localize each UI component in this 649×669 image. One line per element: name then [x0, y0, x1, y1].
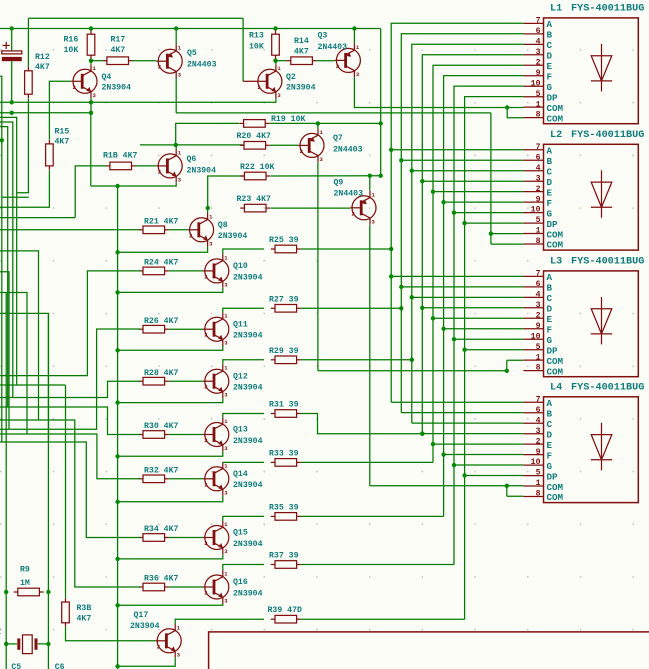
wire L3 pin DP feed — [465, 349, 524, 351]
wire R38 top feed — [65, 385, 67, 598]
wire L3 pin D feed — [422, 307, 523, 309]
wire Q17 collector — [175, 619, 264, 624]
svg-text:Q13: Q13 — [233, 426, 248, 435]
wire L2 pin E feed — [433, 191, 523, 193]
label R25 39 — [269, 236, 299, 245]
label Q17 2N3904 — [130, 611, 160, 631]
svg-text:7: 7 — [536, 17, 541, 26]
resistor R34 — [139, 534, 169, 542]
svg-text:FYS-40011BUG: FYS-40011BUG — [571, 130, 644, 141]
svg-text:6: 6 — [536, 153, 541, 162]
capacitor C12 polarized — [2, 29, 22, 103]
svg-text:5: 5 — [536, 469, 541, 478]
transistor Q13 — [203, 418, 229, 452]
wire R18 input — [75, 166, 106, 218]
svg-text:4K7: 4K7 — [111, 46, 126, 55]
svg-text:A: A — [547, 272, 553, 283]
svg-text:Q3: Q3 — [318, 32, 328, 41]
junction R13 top — [273, 26, 277, 30]
svg-text:5: 5 — [536, 343, 541, 352]
wire Q14 collector — [223, 461, 264, 463]
wire segment bus DP vertical — [465, 97, 524, 620]
svg-text:A: A — [547, 146, 553, 157]
wire L2 pin DP feed — [465, 222, 524, 224]
svg-text:2N4403: 2N4403 — [334, 189, 364, 198]
wire R12 top feed — [27, 18, 29, 67]
wire L4 COM feed — [370, 485, 507, 487]
connector L1 FYS-40011BUG box — [544, 18, 639, 124]
junction rail113 cap — [10, 111, 14, 115]
svg-text:4: 4 — [536, 416, 541, 425]
svg-text:L3: L3 — [550, 257, 562, 268]
svg-text:2: 2 — [536, 58, 541, 67]
wire Q12 emitter — [118, 398, 223, 403]
label C6 — [55, 663, 65, 669]
wire L1 COM1 stub — [507, 107, 523, 109]
junction Q14 emitter — [115, 500, 119, 504]
svg-text:R26 4K7: R26 4K7 — [144, 317, 178, 326]
svg-text:4K7: 4K7 — [35, 63, 50, 72]
svg-text:COM: COM — [547, 492, 564, 503]
svg-text:2: 2 — [158, 168, 161, 175]
wire L2 pin D feed — [422, 180, 523, 182]
wire L3 pin F feed — [444, 328, 524, 330]
label L1 title — [550, 4, 644, 15]
label Q11 2N3904 — [233, 320, 263, 340]
wire Q6 collector up — [175, 145, 177, 149]
junction Q4 emitter node — [89, 100, 93, 104]
svg-text:2: 2 — [189, 232, 192, 239]
resistor R18 — [106, 162, 136, 170]
wire R15 bottom path — [0, 170, 49, 207]
transistor Q2 — [256, 65, 282, 99]
svg-text:2: 2 — [204, 437, 207, 444]
resistor R13 — [272, 30, 280, 59]
resistor R37 — [271, 561, 301, 569]
wire Q4 emitter down — [90, 98, 92, 113]
wire feed row R36 — [0, 420, 140, 587]
svg-text:2: 2 — [536, 185, 541, 194]
transistor Q8 — [188, 213, 214, 247]
label R28 4K7 — [144, 369, 178, 378]
wire L2 COM1 — [491, 233, 524, 235]
label Q16 2N3904 — [233, 578, 263, 598]
svg-text:E: E — [547, 61, 553, 72]
svg-text:Q16: Q16 — [233, 578, 248, 587]
wire Q9 emitter up — [369, 176, 371, 191]
svg-text:8: 8 — [536, 111, 541, 120]
wire left edge spur — [0, 76, 29, 442]
junction L2 D — [420, 179, 424, 183]
svg-text:L1: L1 — [550, 4, 562, 15]
diode symbol L2 — [591, 170, 612, 218]
svg-text:10: 10 — [531, 332, 541, 341]
junction Q17 emitter — [115, 664, 119, 668]
junction R13 bottom node — [273, 59, 277, 63]
svg-text:R39 47D: R39 47D — [268, 606, 302, 615]
wire feed entry y122 — [0, 122, 13, 398]
resistor R39 — [271, 615, 301, 623]
svg-text:1: 1 — [536, 100, 541, 109]
wire R12 bottom path — [17, 99, 29, 193]
junction L2 F — [441, 200, 445, 204]
wire rail drop x380.7 — [380, 29, 382, 176]
wire R16-R17 node — [91, 60, 103, 62]
svg-text:A: A — [547, 398, 553, 409]
svg-text:R1B 4K7: R1B 4K7 — [103, 152, 137, 161]
svg-text:2N3904: 2N3904 — [286, 84, 316, 93]
junction rail-cap — [10, 26, 14, 30]
resistor R38 — [62, 598, 70, 627]
svg-text:B: B — [547, 156, 553, 167]
wire Q15 emitter — [118, 554, 223, 559]
label R9 1M — [20, 566, 30, 588]
svg-text:Q10: Q10 — [233, 262, 248, 271]
svg-text:DP: DP — [547, 219, 559, 230]
label L3 title — [550, 257, 644, 268]
wire R22 left bend — [208, 176, 244, 208]
svg-text:R33 39: R33 39 — [269, 449, 299, 458]
svg-text:C: C — [547, 293, 553, 304]
wire Q3 collector route — [354, 77, 507, 107]
svg-text:4K7: 4K7 — [77, 615, 92, 624]
junction R9 right — [46, 590, 50, 594]
junction L4 F — [441, 452, 445, 456]
svg-text:4K7: 4K7 — [294, 48, 309, 57]
wire feed entry y251 — [0, 251, 39, 420]
wire segment bus B vertical — [401, 34, 523, 413]
svg-text:R3B: R3B — [77, 604, 92, 613]
label R21 4K7 — [144, 218, 178, 227]
junction L3 D — [420, 306, 424, 310]
resistor R31 — [271, 410, 301, 418]
junction Q11 emitter — [115, 348, 119, 352]
svg-text:DP: DP — [547, 92, 559, 103]
svg-text:COM: COM — [547, 482, 564, 493]
diode symbol L3 — [591, 297, 612, 345]
wire Q15 collector — [223, 516, 264, 520]
svg-text:A: A — [547, 19, 553, 30]
svg-text:Q17: Q17 — [134, 611, 149, 620]
resistor R26 — [139, 325, 169, 333]
pins L4 — [523, 395, 563, 503]
junction L4 COM — [505, 484, 509, 488]
wire R19 left bend — [176, 123, 239, 144]
junction L2 COM — [489, 231, 493, 235]
wire L3 pin E feed — [433, 317, 523, 319]
wire Q4 base feed — [50, 80, 72, 82]
svg-text:G: G — [547, 208, 553, 219]
wire Q13 collector — [223, 414, 264, 418]
wire Q16 emitter — [118, 604, 223, 606]
svg-text:COM: COM — [547, 240, 564, 251]
svg-text:6: 6 — [536, 27, 541, 36]
svg-text:2N3904: 2N3904 — [102, 84, 132, 93]
wire L3 pin G feed — [454, 338, 523, 340]
label R31 39 — [269, 401, 299, 410]
resistor R36 — [139, 583, 169, 591]
junction R25 bus — [389, 247, 393, 251]
wire L2 pin G feed — [454, 212, 523, 214]
svg-text:B: B — [547, 283, 553, 294]
svg-text:7: 7 — [536, 143, 541, 152]
wire L4 COM2 stub — [507, 495, 524, 497]
svg-text:R22 10K: R22 10K — [240, 163, 274, 172]
svg-text:R34 4K7: R34 4K7 — [144, 525, 178, 534]
svg-text:7: 7 — [536, 395, 541, 404]
wire rail y28.5 — [0, 28, 381, 30]
svg-text:COM: COM — [547, 113, 564, 124]
diode symbol L1 — [591, 44, 612, 92]
junction R23 node — [206, 206, 210, 210]
label L4 title — [550, 383, 644, 394]
svg-text:D: D — [547, 429, 553, 440]
resistor R27 — [271, 305, 301, 313]
label R27 39 — [269, 295, 299, 304]
resistor R9 — [14, 588, 44, 596]
wire emitter row y102 — [0, 101, 175, 103]
label C5 — [11, 663, 21, 669]
wire Q11 emitter — [118, 346, 223, 350]
wire feed entry y126 — [0, 127, 8, 407]
label R18 4K7 — [103, 152, 137, 161]
wire feed entry y117 — [0, 117, 17, 385]
label R14 4K7 — [294, 37, 309, 57]
svg-text:G: G — [547, 82, 553, 93]
svg-text:2N3904: 2N3904 — [233, 384, 263, 393]
label Q12 2N3904 — [233, 372, 263, 392]
junction Q15 emitter — [115, 557, 119, 561]
svg-text:2N3904: 2N3904 — [233, 481, 263, 490]
svg-text:Z: Z — [0, 628, 1, 637]
wire Q6 collector row — [140, 144, 243, 146]
svg-text:2: 2 — [157, 643, 160, 650]
svg-text:Q12: Q12 — [233, 372, 248, 381]
svg-text:1: 1 — [536, 353, 541, 362]
connector L2 FYS-40011BUG box — [544, 144, 639, 250]
svg-text:3: 3 — [536, 174, 541, 183]
junction L3 G — [452, 337, 456, 341]
junction Q5 emitter rail — [174, 26, 178, 30]
svg-text:2: 2 — [204, 481, 207, 488]
svg-text:C: C — [547, 40, 553, 51]
svg-text:3: 3 — [536, 427, 541, 436]
svg-text:R24 4K7: R24 4K7 — [144, 259, 178, 268]
svg-text:E: E — [547, 187, 553, 198]
label Q3 2N4403 — [318, 32, 348, 53]
transistor Q15 — [203, 521, 229, 555]
transistor Q16 — [203, 570, 229, 604]
resistor R22 — [240, 172, 270, 180]
wire L2 pin B feed — [401, 159, 523, 161]
label Q6 2N3904 — [187, 155, 217, 176]
resistor R28 — [139, 377, 169, 385]
junction L4 DP — [462, 473, 466, 477]
svg-text:R31 39: R31 39 — [269, 401, 299, 410]
resistor R19 — [239, 120, 269, 128]
wire L3 pin B feed — [401, 286, 523, 288]
wire R21 to Q8 base — [169, 229, 188, 231]
svg-text:D: D — [547, 51, 553, 62]
resistor R32 — [139, 475, 169, 483]
label R15 4K7 — [55, 128, 70, 147]
junction R19 x380 — [379, 121, 383, 125]
label R36 4K7 — [144, 575, 178, 584]
wire R19 right — [270, 122, 381, 124]
resistor R25 — [271, 245, 301, 253]
svg-text:R28 4K7: R28 4K7 — [144, 369, 178, 378]
label Q2 2N3904 — [286, 73, 316, 93]
label edge fragment — [0, 628, 1, 637]
svg-text:C: C — [547, 166, 553, 177]
svg-text:G: G — [547, 461, 553, 472]
svg-text:Q15: Q15 — [233, 529, 248, 538]
svg-text:2: 2 — [352, 210, 355, 217]
junction Q13 emitter — [115, 454, 119, 458]
wire R14 to Q3 base — [317, 60, 335, 62]
junction R29 bus — [410, 358, 414, 362]
wire Q3 emitter to rail — [353, 29, 355, 44]
svg-text:FYS-40011BUG: FYS-40011BUG — [571, 257, 644, 268]
svg-text:10: 10 — [531, 458, 541, 467]
svg-text:R9: R9 — [20, 566, 30, 575]
resistor R33 — [271, 459, 301, 467]
wire R18 to Q6 base — [135, 165, 156, 167]
wire R36 to Q16 base — [169, 586, 203, 588]
wire R25 output — [301, 248, 391, 250]
wire L3 pin C feed — [412, 296, 524, 298]
wire Q16 collector — [223, 565, 264, 571]
wire L4 pin C feed — [412, 422, 524, 424]
svg-text:Q5: Q5 — [187, 49, 197, 58]
svg-text:2N3904: 2N3904 — [233, 589, 263, 598]
svg-text:F: F — [547, 324, 553, 335]
svg-text:COM: COM — [547, 366, 564, 377]
wire R35 output — [301, 515, 444, 517]
wire Q10 emitter — [118, 288, 223, 293]
svg-text:DP: DP — [547, 471, 559, 482]
svg-text:Q9: Q9 — [334, 179, 344, 188]
svg-text:2: 2 — [257, 84, 260, 91]
wire segment bus D vertical — [422, 55, 523, 434]
svg-text:1: 1 — [536, 479, 541, 488]
pins L1 — [523, 17, 563, 125]
label R17 4K7 — [111, 36, 126, 55]
wire Q8 collector — [207, 208, 209, 213]
svg-text:L2: L2 — [550, 130, 562, 141]
pins L3 — [523, 270, 563, 378]
svg-text:1: 1 — [536, 227, 541, 236]
label R16 10K — [64, 36, 79, 55]
svg-text:10K: 10K — [249, 43, 264, 52]
svg-text:Q6: Q6 — [187, 155, 197, 164]
wire feed row R24 — [0, 271, 140, 376]
wire feed row R34 — [0, 442, 140, 538]
wire rail to Q2 base — [242, 18, 244, 81]
svg-text:Q14: Q14 — [233, 470, 248, 479]
svg-text:COM: COM — [547, 229, 564, 240]
svg-text:9: 9 — [536, 322, 541, 331]
wire R39 output — [301, 618, 465, 620]
wire R26 to Q11 base — [169, 328, 203, 330]
wire L4 pin G feed — [454, 464, 523, 466]
svg-text:2: 2 — [536, 437, 541, 446]
resistor R15 — [46, 140, 54, 170]
wire R20 to Q7 base — [270, 144, 298, 146]
label Q13 2N3904 — [233, 426, 263, 446]
junction Q16 emitter — [115, 603, 119, 607]
svg-text:2N4403: 2N4403 — [187, 61, 217, 70]
junction L2 B — [399, 158, 403, 162]
svg-text:FYS-40011BUG: FYS-40011BUG — [571, 4, 644, 15]
wire R15 top to Q4 base — [48, 81, 50, 139]
svg-text:2: 2 — [204, 273, 207, 280]
wire segment bus C vertical — [412, 44, 524, 423]
svg-text:2N4403: 2N4403 — [333, 146, 363, 155]
svg-text:2N3904: 2N3904 — [233, 332, 263, 341]
svg-text:2: 2 — [536, 311, 541, 320]
svg-text:2: 2 — [300, 148, 303, 155]
junction cap mid — [10, 100, 14, 104]
svg-text:2N3904: 2N3904 — [233, 540, 263, 549]
svg-text:9: 9 — [536, 448, 541, 457]
svg-text:G: G — [547, 335, 553, 346]
label Q14 2N3904 — [233, 470, 263, 490]
transistor Q3 — [335, 44, 361, 78]
wire feed row R30 — [0, 407, 140, 435]
junction L3 C — [410, 295, 414, 299]
junction L4 E — [431, 442, 435, 446]
svg-text:R19 10K: R19 10K — [271, 115, 305, 124]
wire feed row R26 — [0, 329, 140, 429]
wire Q14 emitter — [118, 496, 223, 502]
wire L1 COM link — [507, 108, 523, 118]
wire segment bus F vertical — [444, 76, 524, 517]
svg-text:3: 3 — [536, 301, 541, 310]
resistor R35 — [271, 513, 301, 521]
wire Q9 collector down — [369, 225, 371, 486]
connector L4 FYS-40011BUG box — [544, 397, 639, 503]
resistor R17 — [103, 57, 133, 65]
svg-text:R32 4K7: R32 4K7 — [144, 467, 178, 476]
svg-text:B: B — [547, 30, 553, 41]
wire R30 to Q13 base — [169, 434, 203, 436]
resistor R16 — [87, 30, 95, 59]
svg-text:2: 2 — [204, 590, 207, 597]
svg-text:COM: COM — [547, 103, 564, 114]
svg-text:Q11: Q11 — [233, 320, 248, 329]
wire R23 to Q9 base — [271, 207, 351, 209]
wire L4 pin DP feed — [465, 474, 524, 476]
svg-text:2N3904: 2N3904 — [233, 437, 263, 446]
junction R31 D-line — [420, 432, 424, 436]
label Q8 2N3904 — [218, 221, 248, 241]
svg-text:2: 2 — [158, 64, 161, 71]
svg-text:R17: R17 — [111, 36, 126, 45]
wire L3 COM feed — [318, 370, 507, 372]
svg-text:8: 8 — [536, 364, 541, 373]
label R22 10K — [240, 163, 274, 172]
diode symbol L4 — [591, 423, 612, 471]
junction L3 COM — [505, 369, 509, 373]
svg-text:R23 4K7: R23 4K7 — [237, 195, 271, 204]
svg-text:2: 2 — [204, 332, 207, 339]
label Q15 2N3904 — [233, 529, 263, 549]
label R38 4K7 — [77, 604, 92, 624]
label R29 39 — [269, 347, 299, 356]
svg-text:2: 2 — [204, 384, 207, 391]
svg-text:10: 10 — [531, 206, 541, 215]
